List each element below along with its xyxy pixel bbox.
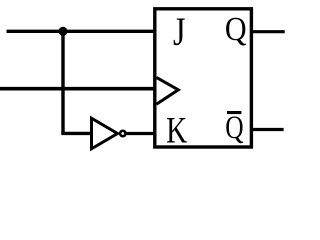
wire vertical from junction	[61, 31, 64, 133]
pin label J	[173, 10, 185, 54]
pin label K	[166, 110, 187, 151]
Qbar overbar	[227, 111, 241, 114]
svg-text:J: J	[173, 10, 185, 54]
svg-text:K: K	[166, 110, 187, 151]
wire CLK input	[0, 87, 156, 91]
svg-text:Q: Q	[225, 10, 247, 47]
wire Q output	[253, 30, 285, 33]
node junction dot	[59, 27, 68, 36]
flip-flop U1 box	[155, 9, 252, 147]
wire J input	[7, 30, 157, 33]
wire inverter output to K	[126, 132, 156, 135]
svg-text:Q: Q	[225, 110, 243, 146]
inverter bubble	[120, 131, 125, 136]
inverter U2 triangle	[92, 118, 118, 149]
pin label Q	[225, 10, 247, 47]
clock edge triangle	[156, 77, 178, 104]
wire Qbar output	[253, 128, 284, 131]
pin label Qbar	[225, 110, 243, 146]
wire to inverter input	[61, 132, 93, 135]
